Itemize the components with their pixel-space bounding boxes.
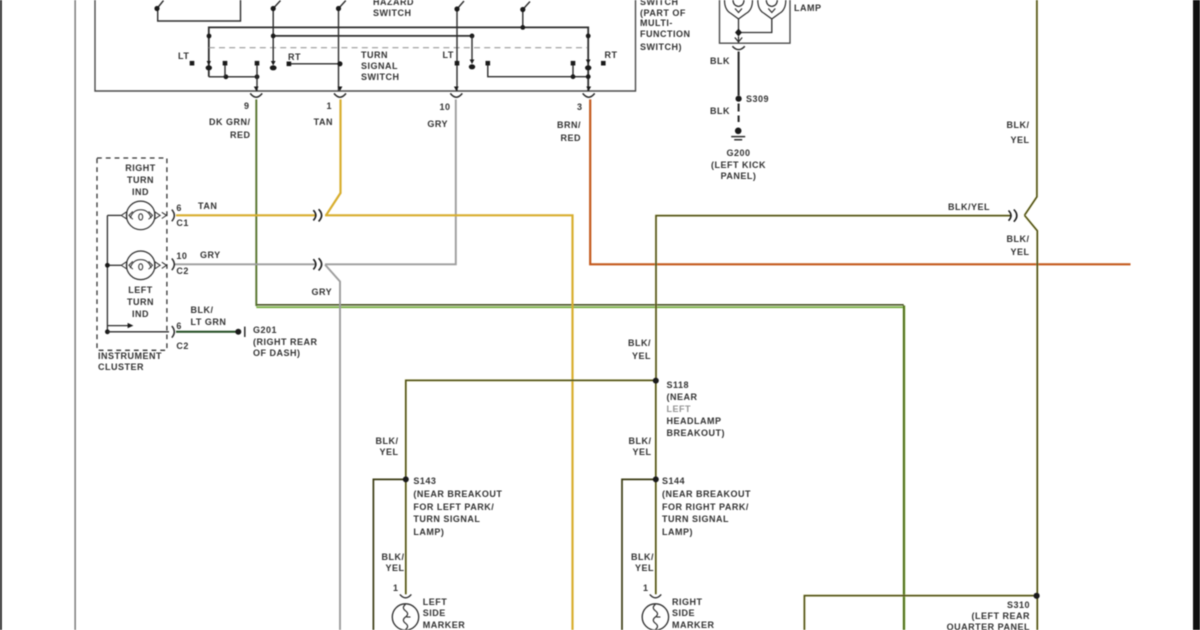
pin 1 connector: [334, 87, 346, 98]
label pin 9: [190, 101, 250, 113]
switch bus line lower: [273, 35, 472, 37]
ground G200 symbol: [731, 128, 745, 140]
label S310 LEFT REAR QUARTER PANEL: [890, 600, 1030, 630]
inline connector on GRY wire: [313, 258, 321, 270]
label pin 1: [272, 101, 332, 113]
label 1 left lamp: [393, 583, 399, 595]
label RT right: [605, 50, 618, 62]
left page edge line: [0, 0, 2, 630]
label HAZARD SWITCH: [373, 0, 414, 19]
label LEFT SIDE MARKER: [423, 597, 466, 630]
wire DK GRN/RED vertical down right side: [903, 306, 906, 630]
label 6 C2 bottom: [176, 317, 189, 356]
wire branch from S143 down left: [373, 479, 405, 630]
junction dot in multifunction box: [735, 29, 742, 37]
hazard contact at x338: [336, 1, 346, 92]
label SWITCH PART OF MULTI-FUNCTION: [640, 0, 691, 40]
label BLK/YEL left lamp: [345, 552, 405, 574]
contact at x472 with arrow: [469, 34, 475, 70]
pin 9 connector: [250, 87, 262, 98]
multifunction switch lamp box: [720, 0, 791, 43]
wire DK GRN/RED vertical from pin 9: [255, 99, 257, 306]
label BLK/YEL above S143: [339, 436, 399, 459]
wire BLK from multifunction switch to S309 and ground: [738, 52, 740, 123]
label LEFT TURN IND: [111, 285, 171, 320]
label BLK/YEL right lamp: [594, 552, 654, 574]
left turn indicator lamp: [107, 251, 166, 280]
splice S144: [653, 476, 659, 482]
label LT right: [443, 50, 454, 62]
switch vertical for pin 10: [454, 1, 464, 91]
wire BLK/YEL right vertical down to S310: [1025, 215, 1038, 630]
wire BLK/YEL S118 to S144 to right side marker lamp: [655, 380, 658, 594]
LT contact cluster left: [190, 34, 260, 91]
switch contact square on pin10 line: [455, 61, 460, 66]
label 6 C1: [176, 201, 189, 230]
splice S310: [1034, 593, 1040, 599]
dashed divider inside switch: [209, 47, 587, 49]
label LT left: [178, 51, 189, 63]
connector C2 arc: [172, 259, 175, 271]
label BLK/YEL at connector: [948, 202, 990, 214]
label INSTRUMENT CLUSTER: [98, 351, 162, 373]
label BLK/ LT GRN: [191, 305, 227, 329]
RT contact pair left: [287, 61, 343, 66]
label GRY at C2: [200, 250, 221, 262]
wire BLK/YEL branch from S310 down left: [804, 596, 1033, 630]
label RIGHT TURN IND: [111, 162, 171, 198]
wire BRN/RED from pin 3: [589, 99, 1130, 264]
hazard contact at x522: [520, 2, 530, 30]
connector C2 bottom arc: [172, 326, 175, 338]
left margin gray line: [74, 0, 76, 630]
switch bus line upper: [209, 27, 588, 91]
label DK GRN/RED: [181, 116, 251, 142]
label BLK upper: [670, 56, 730, 68]
label GRY mid: [312, 287, 333, 299]
pin 10 connector: [450, 87, 462, 98]
LT contact cluster right: [486, 61, 591, 79]
label S118 NEAR LEFT HEADLAMP BREAKOUT: [667, 380, 726, 439]
connector C1 arc: [172, 210, 175, 222]
label pin 3: [523, 102, 583, 114]
label TAN: [273, 117, 333, 129]
lamp left in multifunction box: [725, 0, 753, 33]
label 10 C2: [176, 249, 189, 279]
wire BLK/YEL top right vertical: [1025, 0, 1037, 215]
label S143 NEAR BREAKOUT FOR LEFT PARK TURN SIGNAL LAMP: [413, 475, 502, 538]
label S309: [746, 94, 769, 106]
label RIGHT SIDE MARKER: [672, 597, 715, 630]
wire BLK/YEL horizontal to corner at x656: [656, 216, 1011, 381]
label S144 NEAR BREAKOUT FOR RIGHT PARK TURN SIGNAL LAMP: [662, 475, 751, 538]
arrow to box edge: [735, 37, 742, 44]
RT contact right on pin3 line: [585, 34, 606, 71]
label TAN at C1: [198, 201, 217, 213]
label RT left: [288, 52, 301, 64]
wire TAN from pin 1 with diagonal to horizontal run: [176, 99, 573, 630]
turn signal / hazard switch box: [95, 0, 636, 91]
wire BLK/YEL S143 to left side marker lamp: [405, 479, 408, 594]
label G201 RIGHT REAR OF DASH: [253, 325, 318, 359]
connector cup under multifunction box: [732, 46, 744, 49]
hazard contact at x273: [270, 1, 281, 71]
label BLK lower: [670, 106, 730, 118]
hazard switch contact loop top left: [154, 0, 240, 21]
cluster bottom pin wire: [107, 331, 169, 333]
instrument cluster dashed box: [97, 158, 167, 350]
wire GRY from pin 10 to C2 and diagonal branch: [174, 99, 456, 630]
wire branch from S144 down left: [622, 479, 656, 630]
cluster internal bus wire: [105, 215, 110, 334]
inline connector on TAN wire: [313, 209, 321, 221]
right turn indicator lamp: [107, 201, 166, 230]
inline connector on BLK/YEL wire: [1009, 210, 1017, 222]
right page edge black bar: [1193, 0, 1200, 630]
wire BLK/YEL S118 branch to S143: [406, 380, 656, 479]
splice S143: [403, 476, 409, 482]
label BLK/YEL above S118: [591, 337, 651, 363]
label pin 10: [391, 102, 451, 114]
label LAMP: [794, 3, 822, 15]
cluster arrow symbol: [107, 323, 133, 328]
label GRY pin: [388, 119, 448, 131]
label BRN/RED: [521, 119, 581, 145]
wire BLK/LT GRN from instrument cluster C2 to G201: [176, 331, 236, 333]
label BLK/YEL below connector: [970, 233, 1030, 260]
right side marker lamp: [642, 594, 668, 630]
label G200 LEFT KICK PANEL: [699, 148, 779, 183]
label BLK/YEL top right: [970, 118, 1030, 147]
label SWITCH): [640, 42, 682, 54]
label TURN SIGNAL SWITCH: [361, 50, 400, 82]
label BLK/YEL above S144: [592, 436, 652, 459]
wire DK GRN/RED horizontal run to S310: [256, 305, 903, 307]
splice S118: [653, 378, 659, 384]
label 1 right lamp: [643, 583, 649, 595]
left side marker lamp: [392, 594, 418, 630]
lamp right in multifunction box: [741, 0, 786, 33]
pin 3 connector: [583, 87, 595, 98]
ground G201 symbol: [235, 327, 245, 337]
splice S309: [736, 96, 742, 102]
